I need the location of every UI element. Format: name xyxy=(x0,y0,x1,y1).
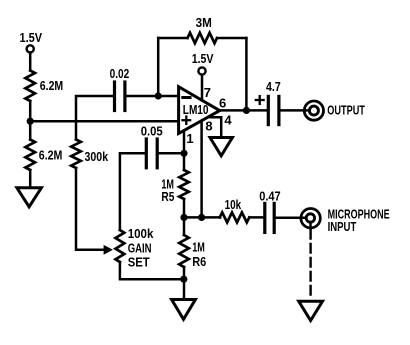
svg-text:6.2M: 6.2M xyxy=(39,148,63,163)
wire pot bottom to R6 node xyxy=(120,262,184,279)
svg-text:3M: 3M xyxy=(196,15,212,30)
svg-text:6.2M: 6.2M xyxy=(40,78,63,93)
wire supply to R1 xyxy=(29,53,32,71)
wire pin 1 down to C2 node xyxy=(183,131,186,154)
wire feedback left leg xyxy=(157,38,160,96)
node output junction xyxy=(243,107,250,114)
ground (microphone shield) xyxy=(299,301,323,320)
svg-text:300k: 300k xyxy=(85,149,109,164)
wire feedback top left xyxy=(158,37,187,40)
svg-text:6: 6 xyxy=(219,96,226,111)
capacitor C1 0.02 xyxy=(113,82,116,111)
svg-text:GAIN: GAIN xyxy=(128,241,152,256)
node feedback junction xyxy=(155,92,162,99)
wire node to R5 xyxy=(183,153,186,170)
wire pin 4 xyxy=(211,117,222,137)
wire R3 down and right to wiper arrow xyxy=(76,168,104,250)
node R5/R6 junction xyxy=(180,214,187,221)
resistor R7 10k xyxy=(220,212,250,222)
wire R1 to R2 xyxy=(29,101,32,140)
svg-text:0.47: 0.47 xyxy=(259,189,281,204)
plus sign noninverting input xyxy=(183,119,191,121)
svg-text:0.05: 0.05 xyxy=(141,123,163,138)
node pin8 junction xyxy=(198,214,205,221)
svg-text:1.5V: 1.5V xyxy=(20,30,43,45)
svg-text:1M: 1M xyxy=(192,239,205,254)
wire feedback top right xyxy=(217,37,246,40)
wire pin 8 down to rail xyxy=(200,121,203,217)
connector J2 microphone input xyxy=(301,209,320,228)
connector J1 output xyxy=(304,101,323,120)
resistor R3 300k xyxy=(71,140,81,169)
wire C2 right lead xyxy=(159,152,184,155)
wire C3 to output jack xyxy=(280,109,309,112)
svg-text:R5: R5 xyxy=(161,189,174,204)
wire dashed mic shield to ground xyxy=(309,230,311,297)
resistor R4 3M xyxy=(188,33,218,43)
svg-text:1.5V: 1.5V xyxy=(192,51,214,66)
minus sign inverting input xyxy=(183,96,190,99)
battery terminal 1.5V (left) xyxy=(27,45,34,52)
wire C1 to inverting input xyxy=(126,95,178,98)
svg-text:10k: 10k xyxy=(225,197,242,212)
svg-text:0.02: 0.02 xyxy=(110,66,130,81)
capacitor C3 4.7 xyxy=(267,96,270,124)
svg-text:4: 4 xyxy=(224,112,232,127)
wire divider node to op-amp noninverting input xyxy=(30,120,178,123)
wire mid rail xyxy=(184,216,220,219)
ground (left divider) xyxy=(17,188,42,207)
resistor R2 6.2M (lower) xyxy=(25,140,35,171)
svg-text:R6: R6 xyxy=(192,254,206,269)
wire R7 to C4 xyxy=(249,216,263,219)
resistor R6 1M xyxy=(183,217,186,235)
svg-text:LM10: LM10 xyxy=(183,102,209,117)
wire branch up to C1 xyxy=(76,96,113,121)
op-amp U1 LM10 xyxy=(179,87,220,134)
resistor R5 1M xyxy=(179,170,189,199)
node R6/pot ground junction xyxy=(180,276,187,283)
wire mic jack sleeve stub xyxy=(309,222,312,229)
svg-text:SET: SET xyxy=(128,255,150,270)
node pin1 / C2 / R5 xyxy=(180,150,187,157)
wire R2 to ground xyxy=(29,170,32,188)
wire C4 to mic jack xyxy=(276,217,306,220)
svg-text:100k: 100k xyxy=(128,226,154,241)
ground (R6) xyxy=(172,300,196,320)
svg-text:4.7: 4.7 xyxy=(266,79,281,94)
capacitor C4 0.47 xyxy=(263,203,266,232)
battery terminal 1.5V (pin 7) xyxy=(198,67,205,74)
wiper arrow of gain pot xyxy=(104,245,113,255)
ground (pin 4) xyxy=(210,138,232,156)
wire R5 to rail xyxy=(183,199,186,217)
svg-text:OUTPUT: OUTPUT xyxy=(327,102,365,117)
svg-text:1: 1 xyxy=(186,131,193,146)
node divider junction xyxy=(27,118,34,125)
plus sign of C3 xyxy=(256,99,264,101)
wire pin 7 xyxy=(201,75,204,101)
svg-text:8: 8 xyxy=(205,119,212,134)
wire output pin 6 xyxy=(220,109,267,112)
wire C2 left lead down to pot xyxy=(120,153,145,230)
resistor R1 6.2M (upper) xyxy=(25,71,35,102)
wire feedback right leg xyxy=(245,38,248,110)
wire branch down to R3 xyxy=(75,121,78,139)
svg-text:INPUT: INPUT xyxy=(328,219,357,234)
wire R6 to ground node xyxy=(183,267,186,300)
potentiometer 100k GAIN SET xyxy=(116,230,125,262)
capacitor C2 0.05 xyxy=(145,139,148,168)
svg-text:7: 7 xyxy=(204,85,211,100)
